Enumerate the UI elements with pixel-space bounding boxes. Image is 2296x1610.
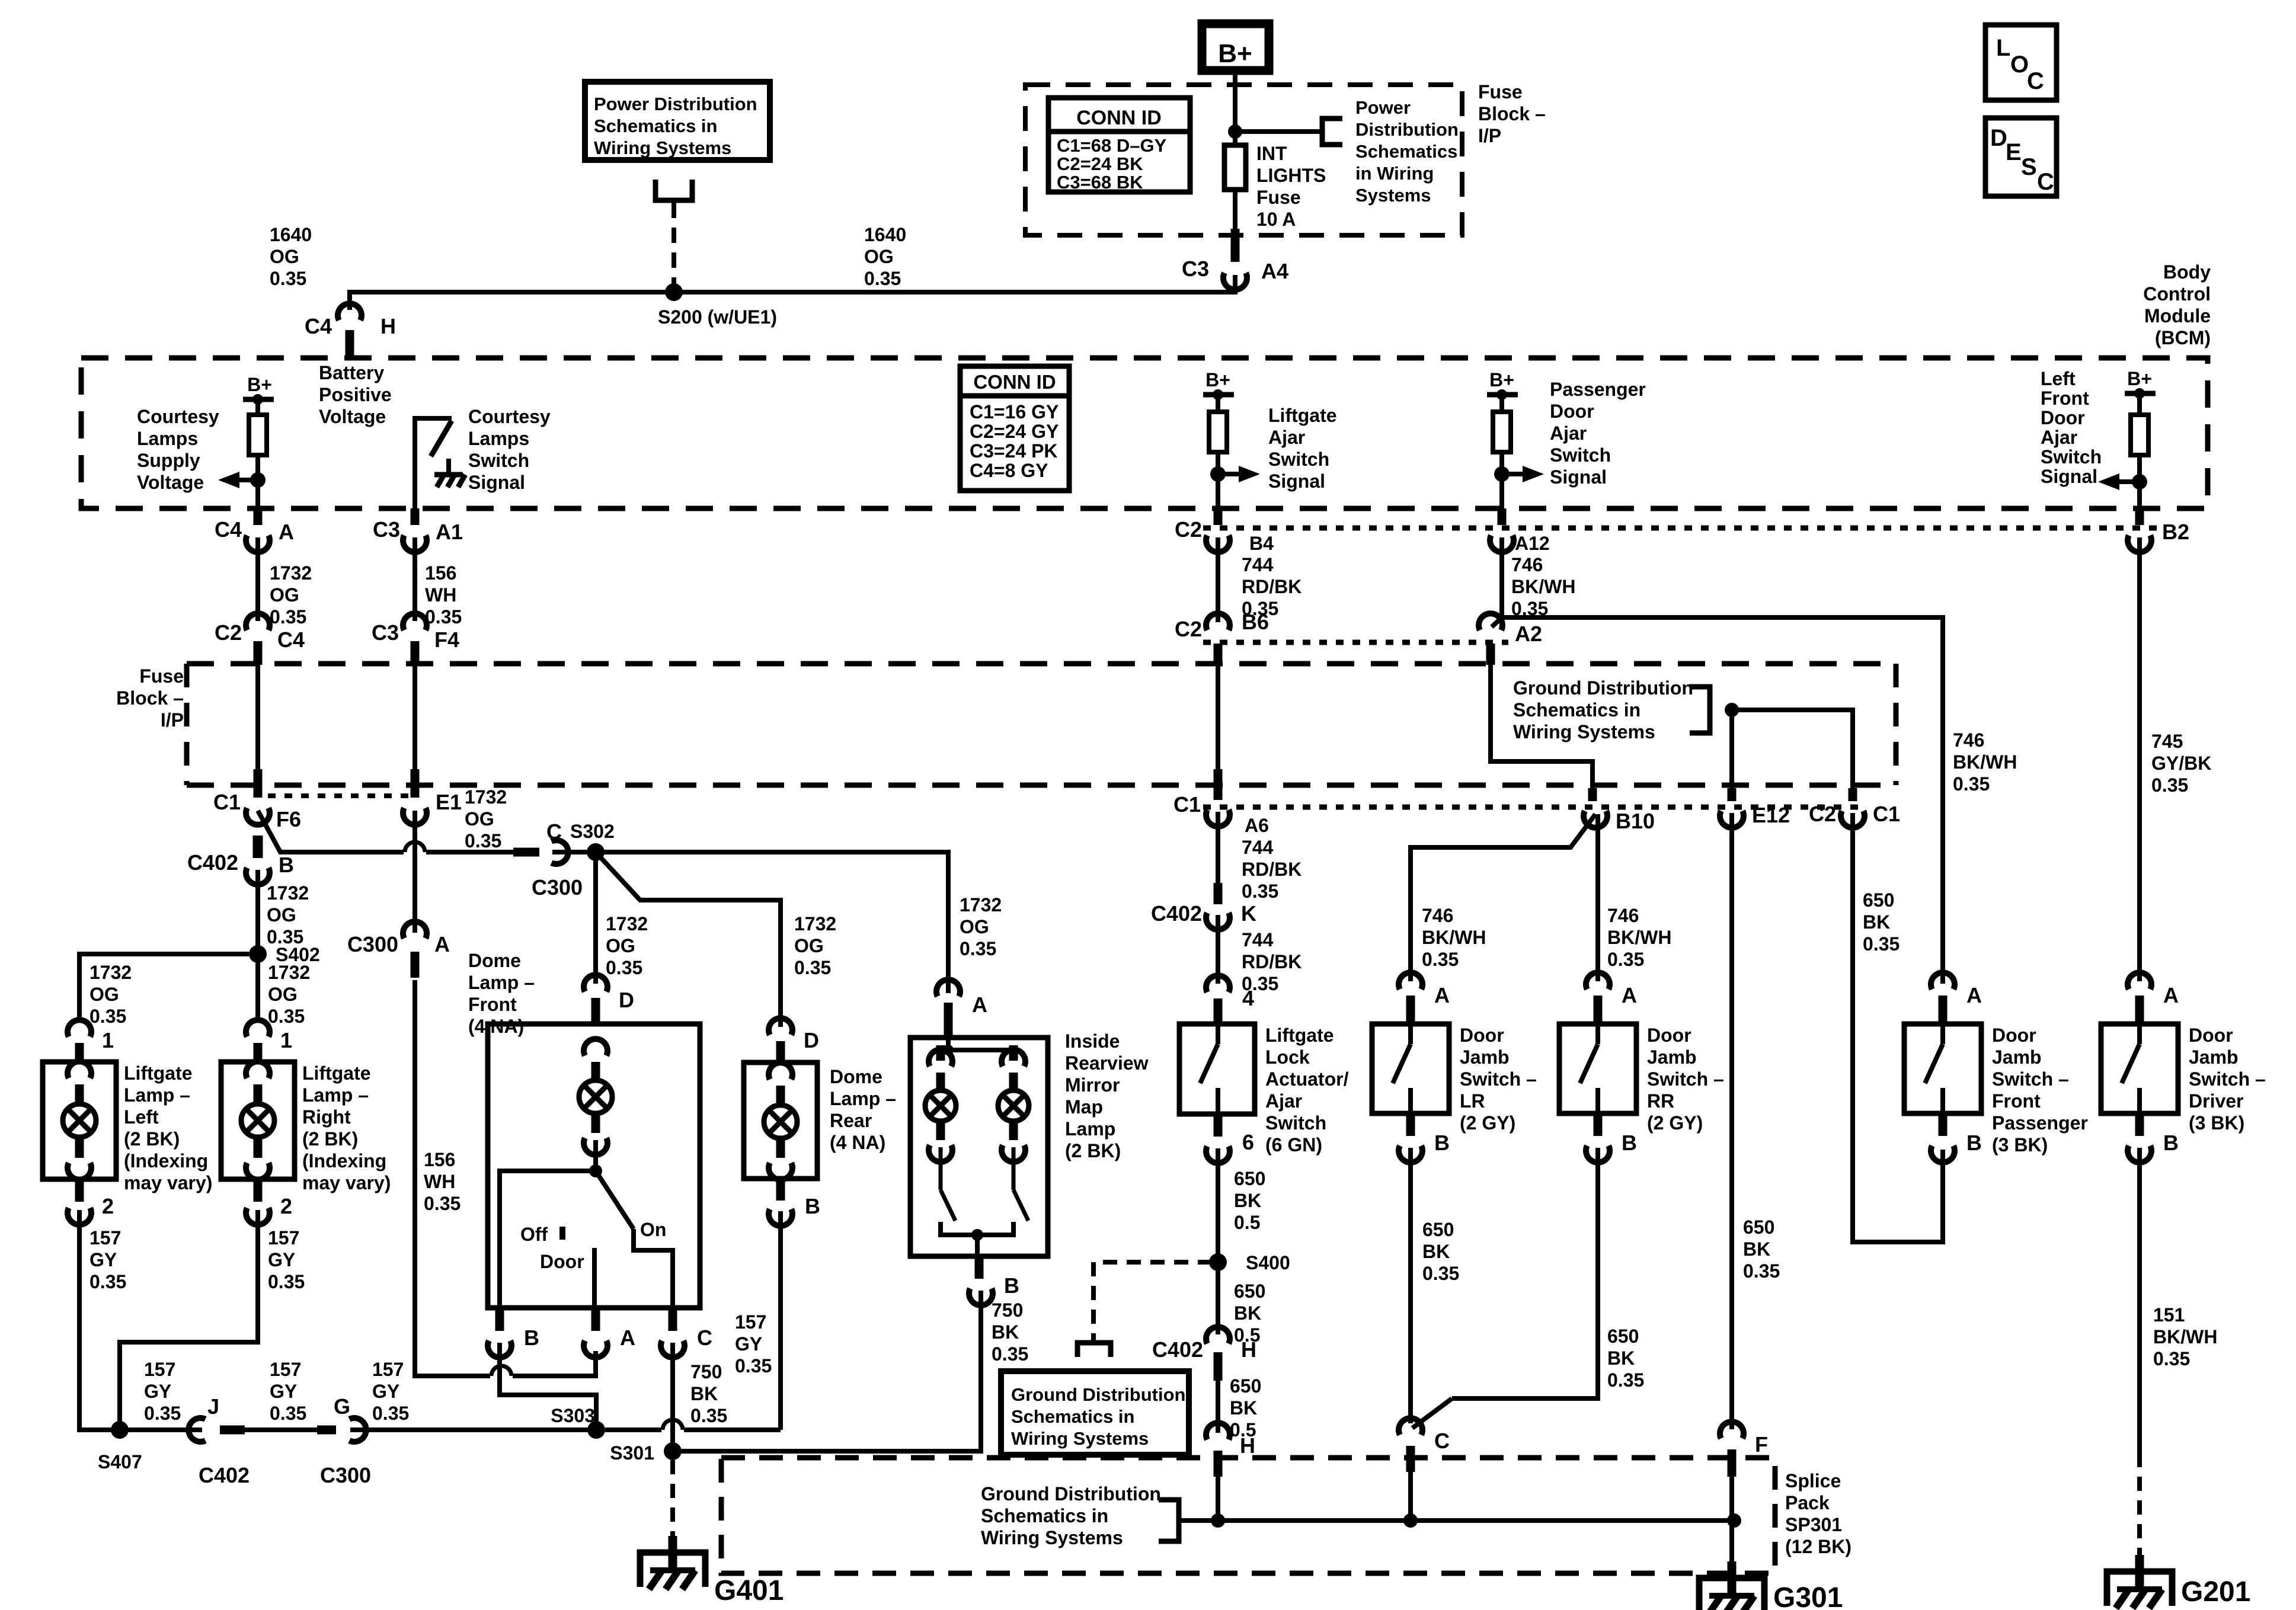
svg-text:B: B	[524, 1326, 539, 1350]
svg-text:Pack: Pack	[1785, 1492, 1830, 1513]
svg-text:G201: G201	[2181, 1576, 2250, 1608]
connector dome front C	[661, 1340, 685, 1357]
svg-text:Switch: Switch	[1265, 1112, 1326, 1134]
connector C402 H	[1206, 1327, 1230, 1343]
wire S302 to dome rear D	[596, 852, 781, 1027]
svg-text:Splice: Splice	[1785, 1470, 1841, 1491]
arrow liftgate ajar	[1218, 472, 1239, 476]
dome rear bulb	[764, 1105, 797, 1138]
svg-text:B+: B+	[247, 374, 272, 395]
svg-text:E: E	[2006, 139, 2022, 165]
fuse block band top	[187, 661, 1896, 667]
svg-text:0.35: 0.35	[1863, 933, 1900, 955]
bracket ground distribution (fuse band)	[1690, 687, 1710, 733]
svg-text:GY: GY	[268, 1249, 295, 1270]
svg-text:K: K	[1241, 901, 1256, 926]
svg-text:C4=8 GY: C4=8 GY	[970, 460, 1048, 481]
resistor col D	[1493, 412, 1511, 452]
bracket power distribution ref	[1322, 119, 1342, 145]
wire C1 F6 to S302	[258, 811, 404, 852]
dome lamp rear box	[744, 1062, 817, 1179]
svg-text:C: C	[697, 1326, 712, 1350]
svg-text:750: 750	[992, 1299, 1023, 1321]
svg-text:0.35: 0.35	[864, 268, 901, 289]
liftgate left pin bot	[75, 1139, 84, 1158]
svg-text:OG: OG	[606, 935, 635, 956]
svg-text:S407: S407	[98, 1451, 142, 1473]
map lamp left lever	[941, 1190, 955, 1221]
svg-text:0.35: 0.35	[1953, 773, 1990, 795]
svg-text:1732: 1732	[270, 562, 312, 584]
connector C1 F6 pin	[254, 769, 263, 798]
connector dome rear D pin	[776, 1041, 785, 1064]
connector C2 B4 pin	[1214, 508, 1223, 525]
wire col B in fuse block	[412, 665, 417, 772]
svg-text:744: 744	[1242, 929, 1274, 950]
wire map lamp B down	[680, 1291, 981, 1451]
svg-text:SP301: SP301	[1785, 1514, 1842, 1535]
svg-text:B: B	[2163, 1131, 2179, 1155]
svg-text:H: H	[1240, 1433, 1255, 1458]
hop 156WH over dome front B wire	[491, 1366, 511, 1376]
map lamp left bulb	[925, 1090, 956, 1121]
svg-text:0.35: 0.35	[268, 1271, 305, 1292]
connector splice H pin	[1214, 1451, 1223, 1477]
svg-text:Jamb: Jamb	[1647, 1046, 1697, 1068]
junction F bus	[1727, 1513, 1741, 1528]
wire S407 to C402 J	[127, 1427, 202, 1432]
svg-text:OG: OG	[89, 984, 119, 1005]
svg-text:Inside: Inside	[1065, 1030, 1120, 1052]
wire dome front B to S303	[500, 1343, 596, 1422]
connector C3 A1	[403, 535, 427, 552]
connector B10 pin	[1588, 788, 1597, 801]
dome front off leg	[500, 1171, 596, 1308]
liftgate right socket bottom	[246, 1163, 270, 1179]
svg-text:0.35: 0.35	[270, 606, 306, 628]
connector C4 A	[246, 535, 270, 552]
map lamp B leg	[975, 1235, 980, 1256]
svg-text:WH: WH	[424, 1171, 455, 1192]
svg-text:151: 151	[2153, 1304, 2185, 1326]
svg-text:BK: BK	[1863, 911, 1890, 933]
svg-text:10 A: 10 A	[1256, 209, 1296, 230]
CONN ID table (fuse block)	[1048, 98, 1190, 192]
ground G401	[669, 1536, 677, 1569]
svg-text:Switch: Switch	[1268, 449, 1329, 470]
map lamp box	[910, 1038, 1048, 1256]
svg-text:OG: OG	[794, 935, 824, 956]
wire to schematic ref bracket	[1235, 129, 1322, 134]
svg-text:Ground Distribution: Ground Distribution	[1011, 1384, 1185, 1405]
wire A12 to FP riser	[1502, 617, 1943, 984]
svg-text:0.35: 0.35	[794, 957, 831, 978]
svg-text:Left: Left	[2041, 368, 2076, 389]
svg-text:BK/WH: BK/WH	[2153, 1326, 2217, 1347]
svg-text:Systems: Systems	[1355, 185, 1431, 206]
svg-text:B: B	[1622, 1131, 1637, 1155]
liftgate left pin2 bar	[75, 1179, 84, 1202]
svg-text:C2=24 BK: C2=24 BK	[1057, 153, 1143, 174]
svg-text:C3=24 PK: C3=24 PK	[970, 440, 1058, 462]
svg-text:Door: Door	[1992, 1025, 2036, 1046]
svg-text:Fuse: Fuse	[139, 665, 184, 687]
DESC box	[1985, 118, 2057, 196]
wire dome rear B down	[778, 1211, 783, 1430]
connector E1 pin	[411, 769, 420, 798]
liftgate right socket top	[246, 1061, 270, 1078]
svg-text:WH: WH	[425, 584, 456, 606]
svg-text:746: 746	[1953, 729, 1984, 751]
connector door jamb driver A	[2128, 972, 2151, 989]
connector door jamb LR A pin	[1406, 996, 1415, 1025]
svg-text:Signal: Signal	[2041, 466, 2097, 487]
wire B10 to LR	[1411, 814, 1595, 981]
fuse block band left	[184, 664, 190, 785]
svg-text:157: 157	[89, 1227, 121, 1249]
svg-text:may vary): may vary)	[124, 1172, 212, 1193]
svg-text:Door: Door	[2041, 407, 2085, 428]
svg-text:Ajar: Ajar	[1265, 1090, 1302, 1112]
svg-text:1732: 1732	[465, 786, 507, 808]
dotted line C1 F6-E1	[268, 793, 415, 798]
wire LR B to C	[1408, 1148, 1413, 1423]
svg-text:S400: S400	[1246, 1252, 1290, 1273]
svg-text:Rear: Rear	[830, 1110, 872, 1131]
dashed wire S301 to G401	[670, 1460, 675, 1536]
svg-text:C402: C402	[1152, 1337, 1203, 1362]
ground G301	[1728, 1561, 1737, 1595]
connector dome rear B	[769, 1209, 792, 1225]
liftgate right pin1 bar	[254, 1043, 263, 1064]
fuse INT LIGHTS	[1224, 145, 1246, 190]
connector map lamp B	[969, 1288, 993, 1305]
svg-text:157: 157	[268, 1227, 299, 1249]
wire 1732 OG col A	[255, 537, 260, 621]
wire C300 C to S302	[552, 850, 596, 854]
svg-text:0.35: 0.35	[960, 938, 996, 959]
svg-text:1732: 1732	[89, 962, 132, 983]
svg-text:I/P: I/P	[1478, 125, 1501, 146]
wire junction to E12	[1729, 710, 1734, 788]
liftgate left pin1 bar	[75, 1043, 84, 1064]
connector C3 F4 pin	[411, 641, 420, 665]
svg-text:Schematics in: Schematics in	[1513, 699, 1641, 721]
connector C2 B4	[1206, 535, 1230, 552]
junction col C	[1210, 466, 1226, 482]
connector C3 A1 pin	[411, 508, 420, 525]
wire S402 to left lamp	[79, 954, 249, 1020]
svg-text:Mirror: Mirror	[1065, 1074, 1120, 1096]
dashed wire to S200	[671, 203, 676, 284]
svg-text:C: C	[2037, 169, 2054, 195]
svg-text:Fuse: Fuse	[1478, 81, 1523, 103]
connector A12	[1490, 535, 1514, 552]
svg-text:Wiring Systems: Wiring Systems	[981, 1527, 1123, 1548]
connector C1 F6	[246, 808, 270, 824]
wire 156 WH col B	[412, 537, 417, 621]
svg-text:G: G	[334, 1394, 350, 1419]
map lamp left pin	[936, 1123, 945, 1140]
resistor col C	[1209, 412, 1227, 452]
svg-text:1732: 1732	[268, 962, 310, 983]
connector E1	[403, 808, 427, 824]
wire col A in fuse block	[255, 665, 260, 772]
liftgate lamp left box	[43, 1062, 116, 1179]
connector C1 A6 pin	[1214, 769, 1223, 800]
door jamb RR switch	[1595, 1024, 1600, 1044]
map lamp left feed bar	[936, 1045, 945, 1061]
connector C402 K pin	[1214, 883, 1223, 904]
dome front switch junction	[589, 1164, 602, 1177]
connector door jamb LR A	[1399, 972, 1422, 989]
svg-text:(3 BK): (3 BK)	[1992, 1134, 2048, 1156]
svg-text:Block –: Block –	[1478, 103, 1546, 124]
svg-text:C2: C2	[215, 620, 242, 645]
svg-text:BK: BK	[690, 1383, 718, 1404]
svg-text:Power: Power	[1355, 97, 1411, 118]
connector door jamb LR B	[1399, 1145, 1422, 1162]
svg-text:C: C	[1434, 1429, 1450, 1453]
connector F pin	[1728, 1449, 1737, 1477]
bracket ground distribution (splice)	[1159, 1500, 1179, 1541]
svg-text:C402: C402	[199, 1463, 250, 1487]
svg-text:Actuator/: Actuator/	[1265, 1068, 1349, 1090]
svg-text:G301: G301	[1773, 1582, 1843, 1610]
door jamb FP switch	[1940, 1024, 1945, 1044]
map lamp contact bracket	[941, 1222, 1013, 1235]
arrow courtesy lamps supply	[239, 478, 258, 482]
svg-text:B+: B+	[2127, 368, 2152, 389]
svg-text:LR: LR	[1460, 1090, 1485, 1112]
splice S200	[665, 283, 683, 301]
svg-text:BK/WH: BK/WH	[1511, 576, 1575, 597]
dome front pin A	[591, 1308, 600, 1331]
svg-text:C2: C2	[1175, 517, 1202, 542]
connector C4 H pin	[346, 330, 354, 358]
svg-text:Fuse: Fuse	[1256, 187, 1301, 208]
svg-text:B4: B4	[1249, 533, 1274, 554]
connector map lamp A pin	[944, 1003, 953, 1039]
connector dome front D pin	[591, 998, 600, 1025]
svg-text:BK: BK	[1234, 1302, 1261, 1324]
map lamp left socket bottom	[929, 1145, 952, 1161]
svg-text:2: 2	[280, 1194, 292, 1218]
svg-text:Lock: Lock	[1265, 1046, 1310, 1068]
svg-text:Power Distribution: Power Distribution	[594, 94, 757, 114]
svg-text:C1: C1	[1173, 792, 1201, 817]
svg-text:Voltage: Voltage	[319, 406, 386, 427]
svg-text:RD/BK: RD/BK	[1242, 951, 1302, 972]
dome rear pin top	[776, 1086, 785, 1103]
connector liftgate right pin2	[246, 1208, 270, 1224]
splice S303	[587, 1421, 605, 1439]
dome rear pin bottom	[776, 1140, 785, 1158]
svg-text:Dome: Dome	[830, 1066, 882, 1087]
BCM connector dotted line C2	[1203, 526, 2162, 531]
svg-text:156: 156	[424, 1149, 455, 1170]
connector E12 pin	[1728, 788, 1737, 801]
connector C300 A pin	[411, 952, 420, 978]
svg-text:Distribution: Distribution	[1355, 119, 1459, 140]
svg-text:Signal: Signal	[1268, 470, 1325, 492]
svg-text:C300: C300	[320, 1463, 371, 1487]
svg-text:157: 157	[372, 1359, 404, 1380]
svg-text:Battery: Battery	[319, 362, 384, 383]
svg-text:Right: Right	[302, 1106, 351, 1128]
wire liftgate col fuse block	[1216, 665, 1220, 772]
BCM dashed box	[81, 358, 2208, 508]
svg-text:D: D	[1990, 125, 2007, 151]
svg-text:Passenger: Passenger	[1992, 1112, 2088, 1134]
svg-text:BK/WH: BK/WH	[1422, 927, 1486, 948]
dome front bulb pin bottom	[591, 1115, 600, 1133]
connector door jamb LR B pin	[1406, 1113, 1415, 1136]
dome front pin C	[669, 1308, 677, 1331]
connector C1 A6	[1206, 809, 1230, 826]
wire E12 down to F	[1729, 813, 1734, 1429]
svg-text:0.35: 0.35	[690, 1405, 727, 1426]
svg-text:Ajar: Ajar	[2041, 427, 2077, 448]
courtesy lamps switch	[415, 418, 452, 508]
svg-text:L: L	[1996, 35, 2010, 61]
svg-text:C4: C4	[215, 517, 242, 542]
svg-text:Switch: Switch	[2041, 446, 2102, 468]
svg-text:0.35: 0.35	[735, 1355, 772, 1377]
connector B2	[2128, 535, 2151, 552]
svg-text:0.35: 0.35	[992, 1343, 1028, 1365]
svg-text:BK: BK	[1743, 1238, 1770, 1260]
svg-text:CONN ID: CONN ID	[973, 371, 1056, 393]
wire H down	[1216, 1381, 1220, 1433]
connector A2 pin	[1486, 644, 1495, 665]
wire J to G	[245, 1427, 317, 1432]
svg-text:Front: Front	[2041, 388, 2089, 409]
door jamb driver box	[2101, 1024, 2178, 1113]
svg-text:Schematics in: Schematics in	[1011, 1406, 1134, 1427]
svg-text:Liftgate: Liftgate	[1268, 405, 1337, 426]
diag A12 to A2	[1492, 617, 1502, 627]
wire A12 down	[1499, 537, 1504, 617]
svg-text:Liftgate: Liftgate	[1265, 1025, 1334, 1046]
connector C300 G	[349, 1418, 366, 1442]
svg-text:Schematics in: Schematics in	[594, 116, 717, 136]
svg-text:Switch –: Switch –	[1647, 1068, 1724, 1090]
svg-text:S302: S302	[570, 821, 615, 842]
svg-text:0.35: 0.35	[1422, 949, 1459, 970]
svg-text:650: 650	[1234, 1281, 1265, 1302]
dome rear pin B	[776, 1179, 785, 1201]
svg-text:C3: C3	[373, 517, 400, 542]
svg-text:A: A	[620, 1326, 635, 1350]
wire 156 WH to map pin A	[513, 1351, 596, 1376]
svg-text:RD/BK: RD/BK	[1242, 859, 1302, 880]
svg-text:C2=24 GY: C2=24 GY	[970, 421, 1059, 442]
svg-text:C2: C2	[1175, 617, 1202, 641]
svg-text:1: 1	[102, 1028, 114, 1052]
wire G to S303	[350, 1427, 596, 1432]
svg-text:Wiring Systems: Wiring Systems	[1011, 1428, 1149, 1449]
liftgate lamp right box	[221, 1062, 295, 1179]
svg-text:0.35: 0.35	[89, 1271, 126, 1292]
svg-text:Control: Control	[2143, 283, 2211, 305]
junction col D	[1494, 466, 1510, 482]
svg-text:GY: GY	[144, 1381, 171, 1402]
connector C402 J	[188, 1418, 205, 1442]
svg-text:S200 (w/UE1): S200 (w/UE1)	[658, 306, 777, 328]
power node B+ box	[1202, 24, 1269, 71]
svg-text:BK/WH: BK/WH	[1607, 927, 1671, 948]
hop bus over 750BK	[663, 1420, 683, 1430]
svg-text:OG: OG	[864, 246, 894, 267]
svg-text:A: A	[2163, 983, 2179, 1007]
svg-text:H: H	[1241, 1337, 1256, 1362]
svg-text:GY: GY	[372, 1381, 399, 1402]
svg-text:Block –: Block –	[116, 687, 184, 709]
svg-text:B6: B6	[1242, 610, 1269, 634]
liftgate right pin2 bar	[254, 1179, 263, 1202]
svg-text:(2 GY): (2 GY)	[1460, 1112, 1515, 1134]
connector splice H	[1206, 1423, 1230, 1439]
wire driver B down	[2137, 1148, 2142, 1453]
svg-text:B: B	[1966, 1131, 1982, 1155]
map lamp bracket junction	[971, 1229, 983, 1241]
svg-text:Door: Door	[1647, 1025, 1691, 1046]
door jamb driver switch	[2137, 1024, 2142, 1044]
svg-text:B: B	[805, 1194, 820, 1218]
svg-text:(2 BK): (2 BK)	[1065, 1140, 1121, 1161]
svg-text:BK/WH: BK/WH	[1953, 751, 2017, 773]
svg-text:Off: Off	[520, 1224, 548, 1245]
svg-text:0.5: 0.5	[1234, 1212, 1260, 1233]
connector door jamb RR A	[1586, 972, 1610, 989]
svg-text:A12: A12	[1515, 533, 1550, 554]
splice S302	[587, 843, 605, 861]
svg-text:1732: 1732	[606, 913, 648, 934]
svg-text:OG: OG	[465, 808, 494, 830]
wire left lamp to S407	[79, 1210, 116, 1430]
svg-text:Body: Body	[2163, 261, 2211, 283]
BCM connector dotted line 3	[1203, 805, 1867, 810]
svg-text:Ajar: Ajar	[1550, 422, 1587, 444]
svg-text:J: J	[207, 1394, 219, 1419]
svg-text:I/P: I/P	[161, 709, 184, 731]
dashed wire driver to G201	[2137, 1453, 2142, 1557]
dome front bulb pin top	[591, 1062, 600, 1080]
connector C3 F4	[403, 613, 427, 630]
connector C300 G pin	[317, 1426, 336, 1435]
svg-text:Signal: Signal	[468, 472, 525, 493]
svg-text:Left: Left	[124, 1106, 159, 1128]
svg-text:745: 745	[2151, 731, 2183, 752]
svg-text:744: 744	[1242, 837, 1274, 858]
svg-text:(2 BK): (2 BK)	[302, 1128, 358, 1150]
connector door jamb FP B	[1931, 1145, 1955, 1162]
svg-text:Front: Front	[1992, 1090, 2041, 1112]
dome front bulb socket bottom	[584, 1138, 607, 1154]
svg-text:1732: 1732	[267, 882, 309, 904]
svg-text:B: B	[1434, 1131, 1450, 1155]
svg-text:650: 650	[1607, 1326, 1639, 1347]
wire C to bus	[1408, 1472, 1413, 1521]
wire B10 to RR	[1595, 814, 1600, 981]
connector dome front A	[584, 1340, 607, 1357]
map lamp left socket	[929, 1049, 952, 1066]
dome front bulb	[579, 1080, 612, 1113]
svg-text:2: 2	[102, 1194, 114, 1218]
svg-text:Switch –: Switch –	[1460, 1068, 1537, 1090]
svg-text:BK: BK	[1230, 1397, 1257, 1419]
